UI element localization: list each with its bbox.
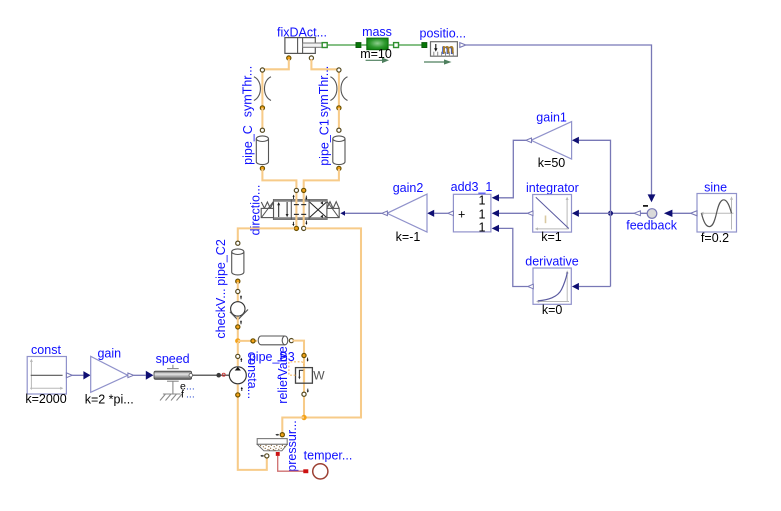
- feedback comparator: [626, 206, 677, 233]
- svg-text:k=-1: k=-1: [396, 230, 421, 244]
- mass m=10: [356, 25, 399, 63]
- position sensor positio...: [420, 27, 467, 65]
- valve port P circle (bottom filled): [294, 226, 298, 230]
- svg-text:f: f: [181, 388, 184, 400]
- wire add3_1 to gain2: [448, 211, 454, 216]
- svg-text:const: const: [31, 343, 61, 357]
- wire symThrottle to pipe_C: [261, 108, 263, 130]
- tank pressur...: [257, 420, 299, 471]
- wire pump suction from tank: [238, 385, 267, 470]
- valve right spring: [327, 202, 339, 209]
- wire mass to positionSensor (green): [399, 44, 422, 46]
- svg-text:symThr...: symThr...: [317, 66, 331, 117]
- svg-text:m=10: m=10: [360, 47, 392, 61]
- gain1 k=50: [531, 110, 572, 170]
- derivative k=0: [525, 254, 579, 317]
- svg-text:gain2: gain2: [393, 181, 424, 195]
- svg-text:k=1: k=1: [541, 230, 562, 244]
- wire pipe_C2 to checkValve: [237, 282, 239, 302]
- svg-text:gain1: gain1: [536, 110, 567, 124]
- gain2 k=-1: [387, 181, 427, 244]
- wire fixDAct port_a to symThrottle: [262, 59, 288, 107]
- svg-text:k=50: k=50: [538, 156, 566, 170]
- pipe_C1: [318, 119, 345, 170]
- valve port T circle (bottom hollow): [302, 226, 306, 230]
- wire valve port T to tank loop (bottom-right run): [304, 228, 361, 417]
- svg-text:k=2000: k=2000: [25, 392, 66, 406]
- wire speed shaft to pump: [193, 374, 229, 376]
- valve left chamber straight arrows: [277, 202, 288, 217]
- pipe_C: [241, 125, 268, 170]
- svg-text:k=2 *pi...: k=2 *pi...: [85, 392, 134, 406]
- valve port stubs (orange through body): [295, 191, 297, 228]
- wire positionSensor to feedback: [466, 45, 652, 195]
- valve left solenoid: [261, 202, 273, 218]
- wire gain2 to directional valve: [382, 211, 388, 216]
- cylinder actuator fixDAct: [277, 25, 327, 53]
- junction node: [608, 211, 613, 216]
- svg-text:1: 1: [479, 194, 486, 208]
- svg-text:temper...: temper...: [304, 449, 353, 463]
- wire derivative to add3_1 input3: [528, 284, 534, 289]
- wire gain1 to add3_1 input1: [526, 138, 532, 143]
- pipe_B3: [249, 336, 295, 364]
- svg-text:symThr...: symThr...: [240, 66, 254, 117]
- wire valve port P to pipe_C2 (bottom-left run): [238, 228, 294, 242]
- wire fixDAct to mass (green): [327, 44, 356, 46]
- check valve checkV...: [214, 288, 248, 338]
- svg-text:k=0: k=0: [542, 303, 563, 317]
- wire integrator to add3_1 input2: [527, 211, 533, 216]
- junction node pump/checkV/pipe_B3: [235, 338, 240, 343]
- wire reliefValve through to tank junction: [303, 367, 305, 418]
- wire const to gain: [66, 373, 72, 378]
- wire fixDAct port_b to symThrottle1: [311, 59, 339, 107]
- svg-text:pipe_C2: pipe_C2: [214, 239, 228, 286]
- svg-text:gain: gain: [97, 346, 121, 360]
- wire junction to integrator: [579, 212, 611, 214]
- junction node tank return: [301, 415, 306, 420]
- svg-text:checkV...: checkV...: [214, 288, 228, 338]
- svg-text:...: ...: [186, 388, 195, 400]
- wire junction up to gain1 and down to derivative: [579, 140, 611, 286]
- wire junction to tank: [282, 418, 304, 434]
- svg-text:f=0.2: f=0.2: [701, 231, 729, 245]
- svg-text:pressur...: pressur...: [285, 420, 299, 471]
- valve right chamber crossed paths: [310, 201, 327, 218]
- symThrottle1 (orifice): [317, 66, 347, 117]
- port_a of fixDAct (orange): [287, 56, 291, 60]
- svg-text:speed: speed: [156, 352, 190, 366]
- symThrottle (orifice): [240, 66, 271, 117]
- wire gain to speed: [128, 373, 134, 378]
- valve port direction marks: [292, 195, 307, 227]
- svg-text:reliefValve: reliefValve: [276, 346, 290, 403]
- wire junction to derivative: [579, 286, 611, 288]
- svg-text:pipe_C1: pipe_C1: [318, 119, 332, 166]
- const source k=2000: [25, 343, 66, 406]
- valve port B circle (top filled): [302, 188, 306, 192]
- wire symThrottle1 to pipe_C1: [338, 108, 340, 130]
- speed source: [154, 352, 195, 401]
- wire pipe_C to valve port A: [262, 169, 296, 190]
- svg-text:1: 1: [479, 207, 486, 221]
- add3_1 summing block: [451, 180, 493, 235]
- svg-text:consta...: consta...: [245, 352, 259, 399]
- wire checkValve to pump junction: [237, 317, 239, 341]
- valve left spring: [261, 202, 273, 208]
- wire feedback to junction: [611, 212, 648, 214]
- valve middle chamber blocked ports: [294, 205, 306, 215]
- sine source f=0.2: [697, 181, 737, 245]
- wire junction to pipe_B3: [238, 340, 257, 342]
- svg-text:feedback: feedback: [626, 219, 677, 233]
- wire pipe_B3 to reliefValve: [293, 341, 305, 367]
- port_b of fixDAct (hollow): [309, 56, 313, 60]
- relief valve reliefValve: [276, 346, 325, 403]
- svg-text:pipe_C: pipe_C: [241, 125, 255, 165]
- wire tank to temperature source (red): [278, 456, 304, 471]
- valve right solenoid: [327, 202, 339, 218]
- svg-text:mass: mass: [362, 25, 392, 39]
- svg-text:derivative: derivative: [525, 254, 579, 268]
- wire sine to feedback: [691, 211, 697, 216]
- flange_b of fixDAct (hollow green square): [322, 43, 327, 48]
- gain k=2*pi: [85, 346, 134, 406]
- svg-text:sine: sine: [704, 181, 727, 195]
- directional valve directio...: [248, 185, 327, 236]
- temperature source temper...: [304, 449, 353, 480]
- svg-text:1: 1: [479, 220, 486, 234]
- svg-text:W: W: [313, 369, 325, 383]
- valve port A circle (top hollow): [294, 188, 298, 192]
- wire pipe_C1 to valve port B: [304, 169, 339, 190]
- pump constantPump consta...: [229, 342, 259, 399]
- svg-text:integrator: integrator: [526, 181, 579, 195]
- svg-text:add3_1: add3_1: [451, 180, 493, 194]
- svg-text:positio...: positio...: [420, 27, 467, 41]
- svg-text:m: m: [442, 41, 454, 57]
- svg-text:+: +: [458, 208, 465, 222]
- pipe_C2: [214, 239, 244, 286]
- integrator k=1: [526, 181, 579, 244]
